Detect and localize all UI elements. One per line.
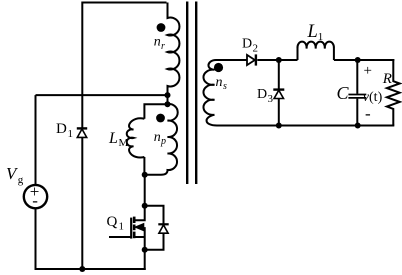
junction Q1 drain dot [142, 203, 148, 209]
label LM [108, 130, 129, 149]
voltage source Vg [24, 185, 47, 208]
wire mid horizontal Vg to node A [36, 94, 168, 96]
label D1 [56, 121, 73, 140]
wire drain stub [144, 175, 146, 206]
capacitor C branch lower [356, 99, 358, 126]
svg-text:L: L [307, 22, 318, 42]
svg-text:C: C [337, 83, 350, 103]
junction node L dot [276, 57, 282, 63]
diode D3 branch lower [278, 99, 280, 126]
svg-text:D: D [257, 87, 267, 102]
svg-text:1: 1 [318, 31, 324, 43]
wire LM bottom stub [143, 157, 145, 175]
svg-text:D: D [242, 37, 252, 52]
junction node A dot [165, 92, 171, 98]
transformer core [186, 2, 188, 185]
label R [382, 71, 392, 87]
polarity dot ns [214, 63, 223, 72]
wire bottom rail primary [35, 268, 146, 270]
label D3 [257, 87, 274, 105]
svg-text:n: n [154, 130, 161, 145]
svg-text:v(t): v(t) [363, 90, 383, 105]
junction LM-np bottom dot [142, 172, 148, 178]
inductor L1 [297, 42, 333, 60]
label ns [216, 75, 228, 92]
svg-text:D: D [56, 121, 67, 137]
wire node C to R corner [358, 59, 395, 61]
svg-text:+: + [364, 63, 372, 79]
svg-text:-: - [365, 104, 371, 123]
svg-text:1: 1 [119, 221, 125, 233]
junction Q1 source dot [142, 247, 148, 253]
winding nr [168, 3, 180, 96]
label np [154, 130, 166, 147]
wire node A to node B [167, 95, 169, 104]
label nr [154, 35, 165, 52]
wire D2 to node L [257, 59, 279, 61]
resistor R [387, 59, 400, 126]
label L1 [307, 22, 324, 43]
polarity dot np [156, 114, 165, 123]
diode D3 branch upper [278, 60, 280, 89]
transistor Q1 [109, 206, 145, 250]
wire top horizontal [82, 2, 166, 4]
svg-text:2: 2 [253, 43, 259, 55]
svg-text:3: 3 [268, 93, 274, 105]
svg-text:n: n [154, 35, 161, 50]
svg-text:L: L [108, 130, 118, 147]
winding np [145, 104, 178, 175]
wire left vertical D1 branch upper [81, 2, 83, 128]
polarity dot nr [157, 23, 166, 32]
wire Vg top stub [35, 95, 37, 185]
junction D3 bottom dot [276, 123, 282, 129]
svg-text:-: - [32, 191, 38, 210]
diode D3 [273, 90, 284, 99]
junction ground-D1 dot [79, 266, 85, 272]
wire Q1 source stub [144, 250, 146, 270]
diode D2 [247, 54, 256, 65]
svg-text:1: 1 [68, 128, 74, 140]
diode D1 [77, 128, 87, 137]
svg-text:r: r [161, 41, 165, 52]
wire Vg bottom stub [35, 208, 37, 269]
winding ns [203, 60, 246, 126]
svg-text:M: M [119, 137, 129, 149]
svg-text:s: s [223, 81, 227, 92]
wire node L to L1 [279, 59, 298, 61]
junction node B dot [165, 101, 171, 107]
svg-text:p: p [160, 136, 166, 147]
wire left vertical D1 branch lower [81, 137, 83, 269]
svg-text:g: g [18, 174, 24, 186]
label Vg [6, 164, 24, 186]
svg-text:R: R [382, 71, 392, 87]
junction node C top dot [355, 57, 361, 63]
body diode of Q1 [145, 206, 169, 250]
wire bottom rail secondary [220, 125, 394, 127]
junction C bottom dot [355, 123, 361, 129]
svg-text:Q: Q [107, 214, 118, 230]
capacitor C [348, 95, 366, 98]
inductor LM [127, 118, 145, 157]
label C [337, 83, 350, 103]
wire L1 to node C [334, 59, 358, 61]
label v(t) [363, 90, 383, 105]
label D2 [242, 37, 258, 55]
svg-text:n: n [216, 75, 223, 90]
capacitor C branch upper [356, 60, 358, 94]
wire LM top jog [144, 104, 167, 119]
label Q1 [107, 214, 125, 233]
